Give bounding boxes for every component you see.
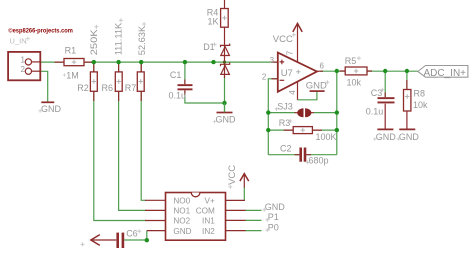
wire C1 bottom to ground node	[185, 91, 225, 104]
resistor R2 pin stubs	[93, 62, 95, 101]
wire connector pin2 to ground	[40, 71, 47, 102]
svg-text:U7: U7	[281, 68, 293, 79]
svg-text:52.63K: 52.63K	[137, 26, 147, 56]
wire SJ3 row left	[268, 112, 295, 114]
wire output net	[320, 70, 418, 72]
svg-text:2: 2	[262, 72, 267, 81]
svg-text:U_IN: U_IN	[9, 36, 26, 45]
resistor R6	[115, 72, 122, 91]
resistor R3 pin stubs	[284, 129, 322, 131]
svg-text:R7: R7	[125, 83, 137, 93]
svg-text:R3: R3	[279, 118, 291, 128]
resistor R8	[404, 90, 411, 112]
svg-text:10k: 10k	[347, 77, 362, 87]
wire IC IN1 to P1 label	[245, 219, 262, 221]
wire SJ3 row right	[313, 112, 336, 114]
ground stub GND2	[224, 103, 226, 112]
zener top: cathode bar	[221, 44, 230, 48]
node output/C3	[383, 69, 387, 73]
op-amp plus mark	[280, 60, 285, 65]
net flag ADC_IN+	[418, 66, 468, 78]
wire C2 row right	[306, 154, 336, 156]
resistor R6 pin stubs	[118, 62, 120, 101]
svg-text:GND: GND	[265, 202, 286, 212]
wire C3 bottom lead	[384, 104, 386, 130]
wire C3 top lead	[384, 71, 386, 97]
IC pin IN2	[226, 230, 246, 232]
svg-text:GND: GND	[376, 132, 397, 142]
IC pin COM	[226, 209, 246, 211]
resistor R1	[64, 59, 84, 66]
svg-text:©esp8266-projects.com: ©esp8266-projects.com	[8, 26, 73, 34]
svg-text:IN2: IN2	[202, 227, 215, 236]
IC pin NO0	[145, 199, 166, 201]
svg-text:C3: C3	[371, 88, 383, 98]
capacitor C1	[178, 84, 193, 86]
svg-text:1K: 1K	[208, 17, 219, 27]
capacitor C1 pin stubs	[184, 80, 186, 96]
svg-text:IN1: IN1	[202, 217, 215, 226]
svg-text:P1: P1	[268, 212, 279, 222]
capacitor C2	[299, 148, 302, 162]
origin cross R1 value	[63, 73, 66, 76]
IC pin V+	[226, 199, 245, 201]
supply arrow (bottom left)	[91, 239, 117, 241]
connector X1 body	[8, 52, 40, 80]
svg-text:C1: C1	[170, 70, 182, 80]
pin 4	[297, 82, 299, 100]
wire op-amp pin4 to ground	[298, 91, 317, 100]
zener bottom: cathode bar	[221, 62, 230, 66]
wire IC GND pin down to C6 node	[146, 231, 148, 241]
pin 6 stub	[317, 70, 323, 72]
op-amp minus mark	[280, 79, 285, 81]
wire IC V+ to VCC	[243, 187, 245, 200]
wire D1 bottom to ground node	[224, 77, 226, 113]
wire R2 branch	[94, 62, 146, 220]
svg-text:GND: GND	[41, 104, 62, 114]
svg-text:SJ3: SJ3	[277, 101, 293, 111]
svg-text:R8: R8	[414, 88, 426, 98]
VCC arrow (IC)	[243, 174, 245, 188]
svg-text:VCC: VCC	[273, 34, 293, 45]
svg-text:V+: V+	[205, 197, 215, 206]
svg-text:0.1u: 0.1u	[169, 90, 187, 100]
svg-text:111.11K: 111.11K	[114, 23, 124, 56]
svg-text:ADC_IN+: ADC_IN+	[424, 68, 467, 79]
wire IC IN2 to P0 label	[245, 230, 262, 232]
svg-text:4: 4	[288, 90, 297, 95]
svg-text:1: 1	[21, 56, 26, 65]
node left rail R3	[266, 128, 270, 132]
wire C1 top lead	[184, 62, 186, 84]
node main/R6	[116, 60, 120, 64]
svg-text:D1: D1	[203, 42, 215, 52]
svg-text:2: 2	[21, 65, 26, 74]
svg-text:NO0: NO0	[173, 197, 190, 206]
svg-text:100K: 100K	[316, 132, 337, 142]
op-amp U7	[278, 53, 317, 92]
svg-text:R2: R2	[77, 83, 89, 93]
IC analog switch	[166, 193, 226, 241]
wire IC COM to GND label	[245, 209, 262, 211]
connector pin 2	[25, 68, 31, 74]
resistor R2	[90, 72, 97, 91]
wire R8 top lead	[406, 71, 408, 90]
resistor R7 pin stubs	[140, 62, 142, 101]
capacitor C2 pin stubs	[295, 154, 312, 156]
svg-text:P0: P0	[268, 222, 279, 232]
node right rail R3	[335, 128, 339, 132]
svg-text:COM: COM	[196, 207, 215, 216]
wire R6 branch	[119, 62, 146, 210]
resistor R7	[137, 72, 144, 91]
diode D1 (dual zener)	[224, 27, 226, 78]
svg-text:680p: 680p	[309, 156, 329, 166]
wire R3 row	[268, 129, 337, 131]
svg-text:R1: R1	[65, 46, 77, 56]
svg-text:7: 7	[286, 50, 295, 55]
node output/R8	[405, 69, 409, 73]
node main/C1	[183, 60, 187, 64]
svg-text:1M: 1M	[66, 70, 79, 80]
node C6/IC gnd	[145, 238, 149, 242]
svg-text:NO1: NO1	[173, 207, 190, 216]
IC pin IN1	[226, 219, 246, 221]
svg-text:GND: GND	[216, 115, 237, 125]
pin 3 stub	[272, 61, 278, 63]
svg-text:C2: C2	[280, 143, 292, 153]
wire feedback right rail	[336, 71, 338, 155]
wire main input net	[40, 61, 277, 63]
ground GND3 (op-amp)	[310, 90, 325, 92]
node main mid	[211, 60, 215, 64]
resistor R8 pin stubs	[406, 80, 408, 90]
pin 7 / VCC arrow	[297, 23, 299, 62]
svg-text:R5: R5	[345, 56, 357, 66]
wire R7 branch	[141, 62, 146, 200]
svg-text:250K: 250K	[89, 29, 99, 55]
svg-text:6: 6	[320, 61, 325, 70]
svg-text:GND: GND	[306, 80, 327, 91]
capacitor C6	[116, 233, 119, 248]
capacitor C3	[378, 97, 395, 99]
zener bottom: triangle	[221, 66, 230, 75]
node right rail SJ3	[335, 110, 339, 114]
svg-text:0.1u: 0.1u	[366, 106, 384, 116]
ground GND5 (R8)	[399, 128, 415, 130]
svg-text:GND: GND	[173, 227, 191, 236]
IC pin NO1	[145, 209, 166, 211]
resistor R1 pin stubs	[55, 61, 94, 63]
svg-text:C6: C6	[126, 228, 138, 238]
wire R8 bottom lead	[406, 111, 408, 129]
ground GND1 below connector	[41, 101, 54, 103]
crossing dot D1/wire	[223, 61, 226, 64]
svg-text:VCC: VCC	[227, 165, 238, 185]
wire C6 to node	[124, 239, 147, 241]
resistor R4	[221, 9, 229, 28]
pin 2 stub	[272, 78, 278, 80]
svg-text:3: 3	[270, 56, 275, 65]
ground GND4 (C3)	[377, 128, 393, 130]
solder jumper SJ3	[295, 112, 315, 114]
resistor R3	[293, 127, 312, 134]
resistor R5	[345, 67, 367, 75]
resistor R5 pin stubs	[340, 70, 373, 72]
svg-text:GND: GND	[399, 132, 420, 142]
svg-text:R6: R6	[102, 83, 114, 93]
node output/right rail	[335, 69, 339, 73]
origin cross U7	[296, 70, 300, 74]
node C1/D1 ground	[222, 101, 226, 105]
IC pin NO2	[145, 220, 166, 222]
connector pin 1	[25, 59, 31, 65]
node main/R7	[139, 60, 143, 64]
svg-text:10k: 10k	[413, 100, 428, 110]
wire op-amp inverting input to feedback rail	[268, 79, 278, 155]
svg-text:NO2: NO2	[173, 217, 190, 226]
ground GND2 (C1/D1)	[217, 112, 233, 114]
IC notch	[191, 193, 200, 197]
origin cross D1	[213, 42, 217, 46]
node left rail SJ3	[266, 110, 270, 114]
capacitor C3 pin stub	[384, 93, 386, 98]
IC pin GND	[147, 230, 166, 232]
wire C2 row left	[268, 154, 299, 156]
zener top: triangle	[221, 47, 230, 56]
node main/R2	[92, 60, 96, 64]
